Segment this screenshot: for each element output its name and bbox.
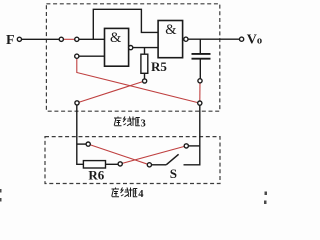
- svg-text:R6: R6: [88, 167, 104, 182]
- svg-text:F: F: [6, 33, 15, 48]
- svg-text:R5: R5: [151, 59, 167, 74]
- svg-text:4: 4: [138, 189, 144, 200]
- svg-text:Vo: Vo: [247, 32, 262, 47]
- svg-text:&: &: [110, 30, 122, 46]
- svg-text:3: 3: [141, 118, 146, 129]
- svg-text:S: S: [170, 166, 177, 181]
- svg-text:&: &: [165, 22, 177, 38]
